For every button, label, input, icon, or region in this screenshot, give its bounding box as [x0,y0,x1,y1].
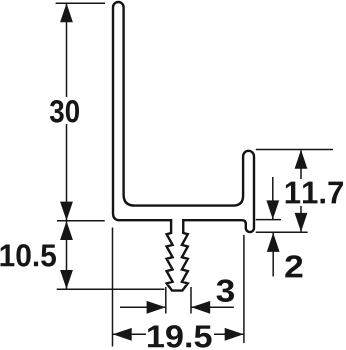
ext line 19.5 left [112,228,114,347]
arrow 19.5 right [225,328,244,341]
text 30 [48,97,81,124]
profile outline [113,2,254,291]
ext line top of 30 [56,2,105,4]
arrow 19.5 left [113,328,132,341]
ext line bottom of 10.5 [57,288,165,290]
arrow 11.7 up [295,150,308,169]
shared ext line between 30 and 10.5 [57,220,105,222]
ext line flange bottom right (2 top) [256,219,281,221]
text 19.5 [146,322,214,348]
dim 3 right arrow [191,306,234,308]
ext line 3 right [190,287,192,314]
arrow 10.5 down [60,270,73,289]
dim line 10.5 [66,221,68,289]
ext line top of 11.7 [256,149,333,151]
arrow 30 down [60,202,73,221]
dim 2 bottom arrow [272,233,274,277]
arrow 10.5 up [60,221,73,240]
dim 2 top arrow [272,177,274,219]
dim line 19.5 [113,333,244,335]
text 3 [217,279,235,302]
text 10.5 [1,244,57,267]
dim 3 left arrow [120,306,166,308]
dim line 11.7 [300,150,302,232]
ext line hook bottom right (2 bottom / 11.7 bottom) [256,231,308,233]
ext line 3 left [165,287,167,314]
dim line 30 [66,3,68,220]
ext line 19.5 right [243,235,245,343]
text 2 [285,255,302,277]
arrow 11.7 down [295,213,308,232]
text 11.7 [284,179,345,206]
arrow 30 up [60,3,73,22]
